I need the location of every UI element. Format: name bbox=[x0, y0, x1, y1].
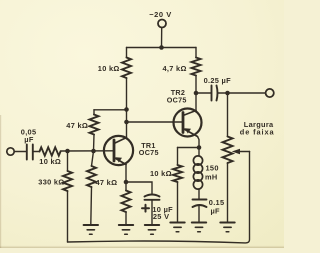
node TR1 collector / TR2 base bbox=[124, 120, 129, 125]
resistor R5 330 kΩ bbox=[63, 151, 72, 242]
capacitor C1 0,05 uF bbox=[27, 145, 40, 160]
supply terminal -20 V bbox=[158, 20, 166, 28]
wire bias branch bbox=[94, 109, 127, 111]
wire TR1 emitter bbox=[125, 164, 127, 182]
input terminal bbox=[7, 148, 14, 155]
wire base TR1 bbox=[61, 150, 115, 152]
svg-text:25 V: 25 V bbox=[153, 212, 169, 221]
resistor R2 4,7 kΩ bbox=[192, 48, 201, 94]
node TR2 emitter bbox=[197, 145, 202, 150]
ground C3 bbox=[145, 225, 159, 234]
svg-text:10 kΩ: 10 kΩ bbox=[98, 64, 120, 73]
node bias divider bbox=[91, 149, 96, 154]
ground potentiometer bbox=[220, 223, 234, 232]
svg-text:10 kΩ: 10 kΩ bbox=[39, 157, 61, 166]
potentiometer bandwidth bbox=[223, 93, 250, 223]
transistor TR2 OC75 bbox=[174, 109, 202, 137]
svg-text:150: 150 bbox=[206, 164, 219, 173]
svg-text:47 kΩ: 47 kΩ bbox=[96, 178, 118, 187]
resistor R6 10 kΩ series input bbox=[40, 147, 61, 155]
node emitter TR1 bbox=[124, 180, 129, 185]
resistor R1 10 kΩ bbox=[122, 48, 131, 110]
wire collector column TR1 bbox=[126, 110, 128, 139]
svg-text:330 kΩ: 330 kΩ bbox=[38, 177, 64, 186]
svg-text:OC75: OC75 bbox=[167, 95, 187, 104]
output terminal bbox=[266, 89, 274, 97]
svg-text:−20 V: −20 V bbox=[149, 10, 172, 19]
svg-text:47 kΩ: 47 kΩ bbox=[66, 121, 88, 130]
page edge shading (decorative) bbox=[0, 246, 284, 249]
node TR2 collector bbox=[194, 91, 199, 96]
capacitor C4 0.15 uF bbox=[193, 200, 207, 223]
wire TR2 base bbox=[127, 121, 184, 123]
svg-text:de faixa: de faixa bbox=[240, 128, 275, 137]
svg-text:10 kΩ: 10 kΩ bbox=[150, 169, 172, 178]
svg-text:mH: mH bbox=[205, 173, 218, 182]
transistor TR1 OC75 bbox=[104, 136, 133, 165]
ground L1 C4 bbox=[192, 223, 206, 232]
resistor R8 10 kΩ emitter TR2 bbox=[173, 148, 182, 223]
resistor R7 emitter bbox=[122, 182, 131, 225]
node bias junction bbox=[124, 107, 129, 112]
svg-text:0.25 µF: 0.25 µF bbox=[204, 76, 231, 85]
svg-text:µF: µF bbox=[211, 206, 221, 215]
resistor R4 47 kΩ lower bbox=[87, 151, 96, 225]
wire TR2 emitter bbox=[198, 137, 200, 148]
inductor L1 150 mH bbox=[193, 148, 202, 200]
wire top bus bbox=[127, 47, 197, 49]
wire output bbox=[218, 92, 265, 94]
wire emitter branch bbox=[178, 147, 200, 149]
capacitor C3 10 uF electrolytic bbox=[145, 195, 160, 226]
node base input bbox=[65, 149, 70, 154]
resistor R3 47 kΩ upper bbox=[90, 110, 99, 151]
svg-text:OC75: OC75 bbox=[139, 148, 159, 157]
capacitor C2 0.25 uF bbox=[212, 86, 218, 101]
svg-text:4,7 kΩ: 4,7 kΩ bbox=[163, 64, 187, 73]
node supply junction bbox=[159, 45, 164, 50]
wire return rail bbox=[68, 152, 250, 243]
wire supply drop bbox=[161, 28, 163, 48]
ground 47 kΩ bbox=[84, 225, 98, 234]
ground emitter resistor bbox=[119, 225, 133, 234]
wire TR2 collector bbox=[195, 93, 197, 111]
node output junction bbox=[225, 91, 230, 96]
label + polarity bbox=[142, 205, 149, 212]
wire emitter to C3 bbox=[126, 182, 152, 194]
wire collector to C2 bbox=[196, 92, 211, 94]
wire input lead bbox=[14, 151, 26, 153]
svg-text:µF: µF bbox=[24, 135, 34, 144]
ground R8 bbox=[170, 223, 184, 232]
